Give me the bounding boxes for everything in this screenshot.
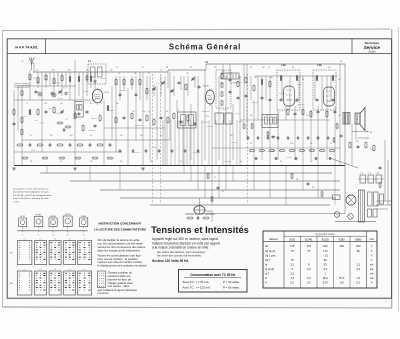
svg-text:1,2: 1,2 — [356, 262, 360, 266]
svg-text:3n: 3n — [330, 143, 332, 145]
svg-text:47p: 47p — [110, 70, 113, 72]
svg-text:30p: 30p — [270, 77, 273, 79]
svg-text:48,2: 48,2 — [323, 276, 329, 280]
svg-text:500: 500 — [116, 103, 119, 105]
svg-text:170: 170 — [323, 249, 328, 253]
svg-text:0,1: 0,1 — [148, 111, 150, 113]
svg-text:0,2: 0,2 — [356, 267, 360, 271]
svg-text:0,05: 0,05 — [44, 103, 47, 105]
svg-text:L3a: L3a — [281, 63, 286, 67]
svg-text:0,5: 0,5 — [306, 115, 308, 117]
svg-text:L3b: L3b — [317, 63, 322, 67]
svg-text:15k: 15k — [310, 143, 313, 145]
svg-text:LA LECTURE DES COMMUTATEURS: LA LECTURE DES COMMUTATEURS — [94, 228, 146, 232]
svg-text:R5: R5 — [250, 67, 252, 69]
svg-text:EM80: EM80 — [207, 211, 212, 213]
svg-text:8µ: 8µ — [292, 67, 294, 69]
svg-text:P = 40 watts.: P = 40 watts. — [223, 280, 240, 284]
svg-text:branchement de l'adaptateur: branchement de l'adaptateur (chassis — [13, 191, 49, 194]
svg-text:EM80: EM80 — [81, 216, 86, 218]
svg-text:mA: mA — [370, 263, 374, 266]
svg-text:87,6: 87,6 — [339, 276, 345, 280]
svg-text:ECH81: ECH81 — [203, 86, 209, 88]
svg-text:0,5: 0,5 — [118, 73, 120, 75]
svg-text:100: 100 — [254, 77, 257, 79]
svg-text:127: 127 — [369, 173, 372, 175]
svg-text:500: 500 — [356, 141, 359, 143]
svg-text:50k: 50k — [166, 111, 169, 113]
svg-text:C8: C8 — [340, 61, 342, 63]
svg-text:250: 250 — [338, 79, 341, 81]
svg-text:100: 100 — [120, 135, 123, 137]
svg-text:47p: 47p — [222, 71, 225, 73]
svg-text:4: 4 — [67, 235, 68, 237]
svg-text:W II: W II — [10, 283, 14, 285]
svg-text:5k: 5k — [222, 191, 224, 193]
svg-text:GmbH: GmbH — [368, 51, 375, 54]
svg-text:70: 70 — [356, 119, 358, 121]
svg-text:10n: 10n — [338, 115, 341, 117]
svg-text:mA: mA — [370, 277, 374, 280]
svg-text:− 15: − 15 — [323, 253, 329, 257]
svg-text:8µ: 8µ — [160, 135, 162, 137]
svg-text:Secteur 110 Volts 50 Hz.: Secteur 110 Volts 50 Hz. — [152, 259, 189, 263]
svg-text:4,4: 4,4 — [307, 276, 311, 280]
svg-text:0,05: 0,05 — [290, 143, 293, 145]
svg-text:1: 1 — [22, 235, 23, 237]
svg-text:220: 220 — [377, 173, 380, 175]
svg-text:250: 250 — [230, 135, 233, 137]
svg-text:25k: 25k — [120, 161, 123, 163]
svg-text:250: 250 — [328, 67, 331, 69]
svg-text:INSTRUCTION CONCERNANT: INSTRUCTION CONCERNANT — [99, 221, 142, 225]
svg-text:25k: 25k — [250, 115, 253, 117]
svg-text:0,2: 0,2 — [356, 281, 360, 285]
svg-text:0,3: 0,3 — [307, 281, 311, 285]
svg-text:W I: W I — [10, 253, 13, 255]
svg-text:Vg 1 pos.: Vg 1 pos. — [265, 253, 276, 257]
svg-text:H 4 F 74 A/01: H 4 F 74 A/01 — [15, 46, 37, 50]
svg-text:EBF80: EBF80 — [50, 216, 56, 218]
svg-text:10n: 10n — [134, 73, 137, 75]
svg-text:100: 100 — [214, 67, 217, 69]
svg-text:12k: 12k — [30, 161, 33, 163]
svg-text:EC92: EC92 — [289, 239, 295, 241]
svg-text:EZ80: EZ80 — [339, 239, 345, 241]
svg-text:EM80: EM80 — [355, 239, 362, 241]
svg-text:2,3: 2,3 — [307, 267, 311, 271]
svg-text:200: 200 — [356, 244, 361, 248]
svg-text:point S du châssis ; liaison à: point S du châssis ; liaison à 78 selon — [13, 197, 50, 200]
svg-text:Service: Service — [364, 45, 381, 50]
svg-text:47p: 47p — [70, 135, 73, 137]
svg-text:ECH81: ECH81 — [35, 214, 41, 216]
svg-text:30p: 30p — [262, 67, 265, 69]
svg-text:R3: R3 — [190, 67, 192, 69]
svg-text:P = 56 watts.: P = 56 watts. — [223, 286, 240, 290]
svg-text:7,6: 7,6 — [290, 276, 294, 280]
svg-text:C4: C4 — [116, 67, 118, 69]
svg-text:Sans TC : I = 60 mA.: Sans TC : I = 60 mA. — [183, 280, 210, 284]
svg-text:à la masse, intensité de chaîn: à la masse, intensité de chaîne en mA). — [152, 245, 209, 249]
svg-text:le déplacement des contacts es: le déplacement des contacts est donné — [98, 264, 148, 268]
svg-text:190: 190 — [323, 244, 328, 248]
svg-text:3: 3 — [53, 235, 54, 237]
svg-text:110: 110 — [361, 173, 364, 175]
svg-text:Appareil réglé sur 300 m, sect: Appareil réglé sur 300 m, secteur, sans … — [152, 237, 219, 241]
svg-text:Unit: Unit — [370, 238, 374, 241]
svg-text:0,1: 0,1 — [214, 177, 216, 179]
svg-text:Tensions et Intensités: Tensions et Intensités — [151, 224, 249, 235]
svg-text:70: 70 — [250, 143, 252, 145]
svg-text:2,2: 2,2 — [290, 272, 294, 276]
svg-text:0,1: 0,1 — [60, 161, 62, 163]
svg-text:Avec TC : I = 125 mA.: Avec TC : I = 125 mA. — [183, 286, 211, 290]
svg-text:mA: mA — [370, 273, 374, 276]
svg-text:EC92: EC92 — [20, 216, 25, 218]
svg-text:5k: 5k — [30, 135, 32, 137]
svg-text:5k: 5k — [280, 161, 282, 163]
svg-text:W: W — [22, 61, 24, 63]
svg-text:ECL82: ECL82 — [322, 239, 330, 241]
svg-text:Ia T: Ia T — [265, 272, 270, 276]
svg-text:175: 175 — [290, 244, 295, 248]
svg-text:250: 250 — [340, 244, 345, 248]
svg-text:3n: 3n — [90, 103, 92, 105]
svg-text:mA: mA — [370, 268, 374, 271]
svg-text:6,2: 6,2 — [323, 267, 327, 271]
svg-text:Ig (2+4): Ig (2+4) — [265, 267, 274, 271]
svg-text:FO 662 M) ; point R de l'adapt: FO 662 M) ; point R de l'adaptateur avec — [13, 194, 53, 197]
svg-text:ci-contre.: ci-contre. — [98, 291, 110, 295]
svg-text:15k: 15k — [60, 103, 63, 105]
svg-text:C et D.: C et D. — [13, 200, 20, 203]
svg-text:50k: 50k — [52, 70, 55, 72]
svg-text:2: 2 — [38, 235, 39, 237]
svg-text:0,2: 0,2 — [290, 281, 294, 285]
svg-text:Va T: Va T — [265, 258, 271, 262]
svg-text:C6: C6 — [268, 67, 270, 69]
svg-text:6,8: 6,8 — [340, 281, 344, 285]
svg-text:HP: HP — [370, 132, 372, 134]
svg-text:0,75: 0,75 — [323, 281, 329, 285]
svg-text:Schéma Général: Schéma Général — [169, 42, 241, 51]
svg-text:Les points K, C et D sont rése: Les points K, C et D sont réservés au — [13, 188, 49, 191]
svg-text:0,2: 0,2 — [90, 135, 92, 137]
svg-text:0,05: 0,05 — [370, 149, 373, 151]
svg-text:5: 5 — [83, 235, 84, 237]
svg-text:10n: 10n — [240, 161, 243, 163]
svg-text:175: 175 — [307, 244, 312, 248]
svg-text:70: 70 — [26, 103, 28, 105]
svg-text:1,3: 1,3 — [356, 276, 360, 280]
svg-text:Elément: Elément — [269, 238, 278, 241]
svg-text:30p: 30p — [140, 135, 143, 137]
svg-text:EC92: EC92 — [105, 92, 109, 94]
svg-text:0,1: 0,1 — [36, 70, 38, 72]
svg-text:R8: R8 — [166, 67, 168, 69]
svg-text:20k: 20k — [312, 187, 315, 189]
svg-text:25k: 25k — [68, 70, 71, 72]
svg-text:L4: L4 — [142, 67, 144, 69]
svg-text:ECL82: ECL82 — [65, 214, 71, 216]
svg-text:(en série des circuits sur ens: (en série des circuits sur ensemble) — [157, 254, 201, 258]
svg-text:Consommation avec TC 50 Hz: Consommation avec TC 50 Hz — [190, 273, 235, 277]
svg-text:50k: 50k — [90, 161, 93, 163]
svg-text:ECH81: ECH81 — [305, 239, 313, 241]
svg-text:8µ: 8µ — [302, 79, 304, 81]
svg-text:dans les circuits qu'ils intér: dans les circuits qu'ils intéressent. — [98, 248, 141, 252]
svg-text:T y p e d e t u b e: T y p e d e t u b e — [315, 233, 335, 236]
svg-text:5k: 5k — [148, 73, 150, 75]
svg-text:0,2: 0,2 — [238, 77, 240, 79]
svg-text:0,2: 0,2 — [160, 70, 162, 72]
svg-text:Vg (2+4): Vg (2+4) — [265, 249, 275, 253]
svg-text:1,2: 1,2 — [290, 262, 294, 266]
svg-text:12k: 12k — [132, 111, 135, 113]
svg-text:0,5: 0,5 — [180, 161, 182, 163]
